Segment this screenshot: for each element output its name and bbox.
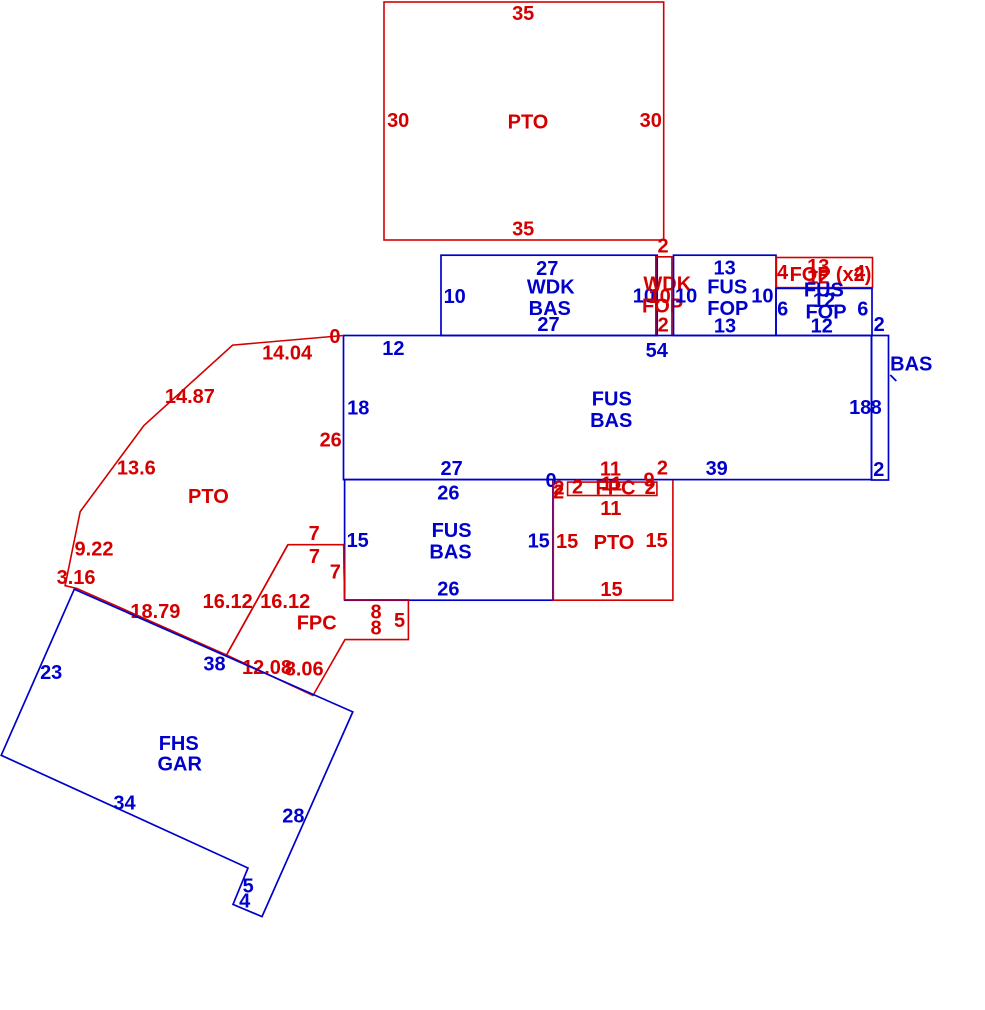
svg-text:38: 38 bbox=[203, 653, 225, 675]
svg-text:8: 8 bbox=[370, 617, 381, 639]
svg-text:35: 35 bbox=[512, 219, 534, 241]
svg-text:26: 26 bbox=[320, 430, 342, 452]
svg-text:7: 7 bbox=[309, 546, 320, 568]
svg-text:12: 12 bbox=[382, 338, 404, 360]
svg-text:2: 2 bbox=[553, 482, 564, 504]
svg-text:6: 6 bbox=[857, 299, 868, 321]
svg-text:15: 15 bbox=[556, 531, 578, 553]
svg-text:WDK: WDK bbox=[527, 276, 575, 298]
red FOP (x2) outline bbox=[776, 258, 872, 288]
svg-text:7: 7 bbox=[309, 523, 320, 545]
svg-text:BAS: BAS bbox=[890, 353, 932, 375]
svg-text:54: 54 bbox=[646, 340, 669, 362]
left PTO patio outline (red polyline) bbox=[65, 336, 345, 656]
area WDK/BAS deck outline bbox=[441, 255, 657, 335]
svg-text:11: 11 bbox=[600, 498, 621, 520]
svg-text:4: 4 bbox=[777, 262, 789, 284]
svg-text:FPC: FPC bbox=[297, 613, 337, 635]
svg-text:2: 2 bbox=[572, 477, 583, 499]
svg-text:12: 12 bbox=[811, 315, 833, 337]
svg-text:18: 18 bbox=[347, 398, 369, 420]
svg-text:PTO: PTO bbox=[594, 532, 635, 554]
area PTO (top patio) outline bbox=[384, 2, 664, 240]
svg-text:9.22: 9.22 bbox=[75, 538, 114, 560]
svg-text:23: 23 bbox=[40, 662, 62, 684]
svg-text:30: 30 bbox=[387, 110, 409, 132]
svg-text:2: 2 bbox=[874, 314, 885, 336]
svg-text:27: 27 bbox=[440, 458, 462, 480]
svg-text:9: 9 bbox=[643, 470, 654, 492]
svg-text:FHS: FHS bbox=[159, 733, 199, 755]
svg-text:16.12: 16.12 bbox=[203, 591, 253, 613]
svg-text:6: 6 bbox=[777, 299, 788, 321]
lower FUS/BAS wing outline bbox=[345, 480, 553, 601]
svg-text:3.16: 3.16 bbox=[57, 567, 96, 589]
FHS/GAR garage outline (blue rotated polygon) bbox=[1, 589, 353, 916]
svg-text:2: 2 bbox=[873, 459, 884, 481]
svg-text:18: 18 bbox=[849, 397, 871, 419]
svg-text:26: 26 bbox=[437, 483, 459, 505]
area FUS/FOP right porch outline bbox=[776, 288, 872, 335]
svg-text:GAR: GAR bbox=[157, 754, 202, 776]
svg-text:FUS: FUS bbox=[432, 520, 472, 542]
narrow BAS strip outline on right bbox=[872, 336, 889, 481]
BAS strip leader line bbox=[890, 375, 896, 381]
svg-text:2: 2 bbox=[657, 458, 668, 480]
svg-text:13.6: 13.6 bbox=[117, 457, 156, 479]
area FUS/FOP center porch outline bbox=[674, 255, 777, 335]
svg-text:34: 34 bbox=[113, 793, 136, 815]
svg-text:8.06: 8.06 bbox=[285, 658, 324, 680]
svg-text:8: 8 bbox=[871, 397, 882, 419]
lower PTO patio outline (red) bbox=[553, 481, 673, 601]
svg-text:10: 10 bbox=[444, 286, 466, 308]
svg-text:2: 2 bbox=[658, 315, 669, 337]
svg-text:4: 4 bbox=[854, 262, 866, 284]
svg-text:BAS: BAS bbox=[590, 410, 632, 432]
svg-text:27: 27 bbox=[537, 314, 559, 336]
main FUS/BAS house outline bbox=[344, 336, 872, 480]
svg-text:30: 30 bbox=[640, 110, 662, 132]
svg-text:14.04: 14.04 bbox=[262, 343, 313, 365]
svg-text:15: 15 bbox=[528, 531, 550, 553]
svg-text:26: 26 bbox=[437, 579, 459, 601]
svg-text:FUS: FUS bbox=[707, 277, 747, 299]
red vertical overlap on lower wing left edge bbox=[343, 545, 346, 600]
svg-text:PTO: PTO bbox=[508, 112, 549, 134]
svg-text:15: 15 bbox=[600, 579, 622, 601]
svg-text:10: 10 bbox=[751, 286, 773, 308]
svg-text:16.12: 16.12 bbox=[260, 591, 310, 613]
svg-text:FPC: FPC bbox=[596, 477, 636, 499]
svg-text:15: 15 bbox=[645, 530, 667, 552]
svg-text:14.87: 14.87 bbox=[165, 386, 215, 408]
svg-text:39: 39 bbox=[706, 458, 728, 480]
red WDK/FOP narrow column outline bbox=[656, 257, 672, 335]
svg-text:28: 28 bbox=[282, 805, 304, 827]
red FPC strip outline bbox=[568, 482, 657, 495]
svg-text:PTO: PTO bbox=[188, 486, 229, 508]
svg-text:35: 35 bbox=[512, 3, 534, 25]
svg-text:7: 7 bbox=[330, 562, 341, 584]
svg-text:5: 5 bbox=[394, 610, 405, 632]
svg-text:2: 2 bbox=[657, 235, 668, 257]
svg-text:10: 10 bbox=[675, 285, 697, 307]
svg-text:FUS: FUS bbox=[592, 389, 632, 411]
svg-text:13: 13 bbox=[714, 315, 736, 337]
svg-text:4: 4 bbox=[239, 890, 251, 912]
svg-text:BAS: BAS bbox=[429, 541, 471, 563]
svg-text:15: 15 bbox=[347, 530, 369, 552]
FPC covered patio outline (red) bbox=[227, 545, 409, 696]
svg-text:18.79: 18.79 bbox=[130, 601, 180, 623]
